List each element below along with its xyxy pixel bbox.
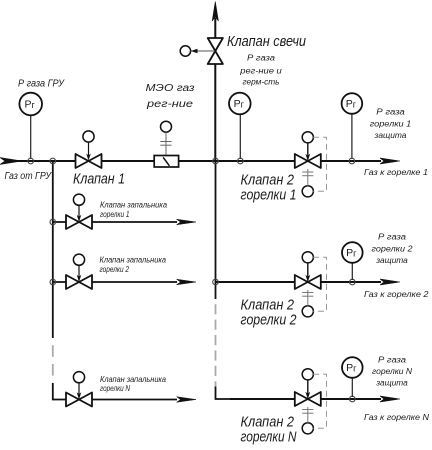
label Klapan svechi bbox=[227, 33, 307, 50]
svg-text:горелки 2: горелки 2 bbox=[372, 244, 414, 253]
arrow to burner N bbox=[380, 396, 400, 402]
svg-text:Р газа: Р газа bbox=[378, 232, 407, 241]
label P gaza gorelki 2 zashchita bbox=[372, 232, 414, 265]
svg-text:рег-ние: рег-ние bbox=[146, 99, 194, 110]
svg-text:Газ к горелке 2: Газ к горелке 2 bbox=[364, 290, 429, 299]
arrow igniter 2 bbox=[177, 279, 197, 285]
svg-text:Клапан запальника: Клапан запальника bbox=[100, 375, 167, 384]
svg-text:Клапан 1: Клапан 1 bbox=[73, 171, 125, 188]
svg-text:горелки N: горелки N bbox=[100, 384, 130, 393]
svg-text:Клапан запальника: Клапан запальника bbox=[100, 201, 168, 210]
svg-text:защита: защита bbox=[373, 131, 407, 140]
svg-text:горелки 1: горелки 1 bbox=[370, 119, 412, 128]
label Gaz k gorelke N bbox=[364, 413, 429, 422]
wire igniter branch 1 bbox=[53, 221, 177, 223]
svg-text:Р: Р bbox=[346, 362, 353, 374]
valve K2-2 actuator top bbox=[302, 252, 313, 282]
label Gaz k gorelke 1 bbox=[364, 168, 428, 177]
valve K2-2 (Klapan 2 gorelki 2) bbox=[295, 275, 321, 289]
label igniter 1 bbox=[100, 201, 168, 220]
junction burner branch 2 bbox=[213, 279, 219, 285]
wire vent riser bbox=[214, 18, 216, 161]
valve K1 actuator bbox=[83, 131, 94, 161]
label P gaza GRU bbox=[18, 79, 65, 90]
gauge P5 stem bbox=[351, 378, 353, 397]
valve K2-1 dashed link bbox=[313, 137, 326, 191]
svg-text:рег-ние и: рег-ние и bbox=[239, 67, 282, 76]
svg-text:Р газа ГРУ: Р газа ГРУ bbox=[18, 79, 65, 90]
gauge P1 (P gaza GRU) bbox=[19, 93, 42, 116]
svg-text:Р: Р bbox=[25, 99, 32, 111]
svg-text:Р: Р bbox=[234, 98, 241, 110]
label Klapan 1 bbox=[73, 171, 125, 188]
valve K2-1 actuator top bbox=[302, 132, 313, 161]
svg-text:Газ к горелке N: Газ к горелке N bbox=[364, 413, 429, 422]
valve K2-N solenoid bottom bbox=[302, 407, 313, 434]
arrow to burner 1 bbox=[380, 158, 400, 164]
valve K2-1 solenoid bottom bbox=[302, 169, 313, 197]
valve ZN (igniter burner N) bbox=[66, 393, 92, 407]
valve K2-1 (Klapan 2 gorelki 1) bbox=[295, 154, 321, 168]
svg-text:горелки 1: горелки 1 bbox=[241, 187, 297, 204]
svg-text:горелки 2: горелки 2 bbox=[241, 312, 298, 329]
svg-text:Р: Р bbox=[346, 98, 353, 110]
svg-text:Р газа: Р газа bbox=[376, 108, 405, 117]
svg-text:горелки N: горелки N bbox=[241, 429, 297, 446]
arrow igniter 1 bbox=[177, 219, 197, 225]
label P gaza gorelki N zashchita bbox=[372, 355, 412, 387]
wire igniter branch N bbox=[66, 399, 177, 401]
junction at P5 bbox=[350, 396, 356, 402]
label Klapan 2 gorelki N bbox=[241, 414, 297, 446]
valve Z1 actuator bbox=[73, 194, 84, 222]
svg-text:защита: защита bbox=[375, 379, 408, 388]
arrow to burner 2 bbox=[380, 279, 400, 285]
svg-text:Газ к горелке 1: Газ к горелке 1 bbox=[364, 168, 428, 177]
valve Z2 actuator bbox=[73, 254, 84, 282]
wire igniter header drop bbox=[53, 161, 66, 400]
wire burner header drop bbox=[216, 161, 231, 399]
junction on main at P2 bbox=[238, 158, 244, 164]
gauge P3 (gorelki 1 zashchita) bbox=[342, 93, 363, 114]
label P gaza gorelki 1 zashchita bbox=[370, 108, 412, 141]
valve K2-2 dashed link bbox=[313, 257, 326, 311]
gauge P2 stem bbox=[239, 115, 241, 160]
label MEO gaz reg-nie bbox=[146, 83, 195, 110]
valve vent (Klapan svechi) bbox=[208, 38, 223, 64]
valve ZN actuator bbox=[73, 372, 84, 400]
svg-text:Газ от ГРУ: Газ от ГРУ bbox=[5, 171, 53, 182]
arrow igniter N bbox=[177, 397, 197, 403]
label Gaz k gorelke 2 bbox=[364, 290, 429, 299]
valve K2-N actuator top bbox=[302, 369, 313, 399]
arrow gas inlet bbox=[0, 158, 22, 165]
arrow vent outlet bbox=[212, 2, 218, 22]
svg-text:Р газа: Р газа bbox=[378, 355, 407, 364]
gauge P5 (gorelki N zashchita) bbox=[342, 357, 363, 378]
wire burner branch N bbox=[230, 398, 381, 400]
label igniter N bbox=[100, 375, 167, 393]
junction on main at P1 bbox=[28, 158, 34, 164]
label igniter 2 bbox=[100, 256, 167, 275]
valve Z2 (igniter burner 2) bbox=[66, 275, 92, 289]
label Gaz ot GRU bbox=[5, 171, 53, 182]
vent solenoid circle bbox=[180, 46, 215, 56]
wire burner branch 2 bbox=[216, 281, 382, 283]
svg-text:герм-сть: герм-сть bbox=[243, 78, 280, 87]
svg-text:Р: Р bbox=[346, 247, 353, 259]
valve Z1 (igniter burner 1) bbox=[66, 215, 92, 229]
junction on main at vent riser bbox=[213, 158, 219, 164]
svg-text:Клапан запальника: Клапан запальника bbox=[100, 256, 167, 265]
actuator MEO circle bbox=[160, 121, 171, 155]
valve K2-2 solenoid bottom bbox=[302, 290, 313, 317]
svg-text:горелки 2: горелки 2 bbox=[100, 265, 130, 274]
junction at P4 bbox=[350, 279, 356, 285]
junction igniter branch 2 bbox=[50, 279, 56, 285]
gauge P1 stem bbox=[30, 115, 32, 159]
junction igniter branch 1 bbox=[50, 219, 56, 225]
svg-text:Р газа: Р газа bbox=[247, 54, 276, 63]
junction on main at P3 bbox=[349, 158, 355, 164]
wire igniter branch 2 bbox=[53, 281, 177, 283]
svg-text:горелки N: горелки N bbox=[372, 367, 412, 376]
gauge P3 stem bbox=[351, 114, 353, 159]
svg-text:Клапан свечи: Клапан свечи bbox=[227, 33, 307, 50]
wire main pipe bbox=[8, 160, 381, 162]
label Klapan 2 gorelki 2 bbox=[241, 297, 298, 329]
svg-text:защита: защита bbox=[375, 256, 408, 265]
label P gaza reg-nie i germ-st bbox=[239, 54, 282, 87]
valve K1 (Klapan 1) bbox=[76, 154, 102, 168]
svg-text:МЭО газ: МЭО газ bbox=[146, 83, 195, 94]
label Klapan 2 gorelki 1 bbox=[241, 172, 297, 204]
regulator MEO box bbox=[154, 156, 178, 168]
gauge P2 (reg-nie i germ-st) bbox=[229, 93, 251, 115]
valve K2-N dashed link bbox=[313, 374, 326, 428]
valve K2-N (Klapan 2 gorelki N) bbox=[295, 392, 321, 406]
gauge P4 (gorelki 2 zashchita) bbox=[342, 242, 363, 263]
junction on main at igniter drop bbox=[50, 158, 56, 164]
svg-text:горелки 1: горелки 1 bbox=[100, 210, 130, 219]
gauge P4 stem bbox=[351, 263, 353, 280]
